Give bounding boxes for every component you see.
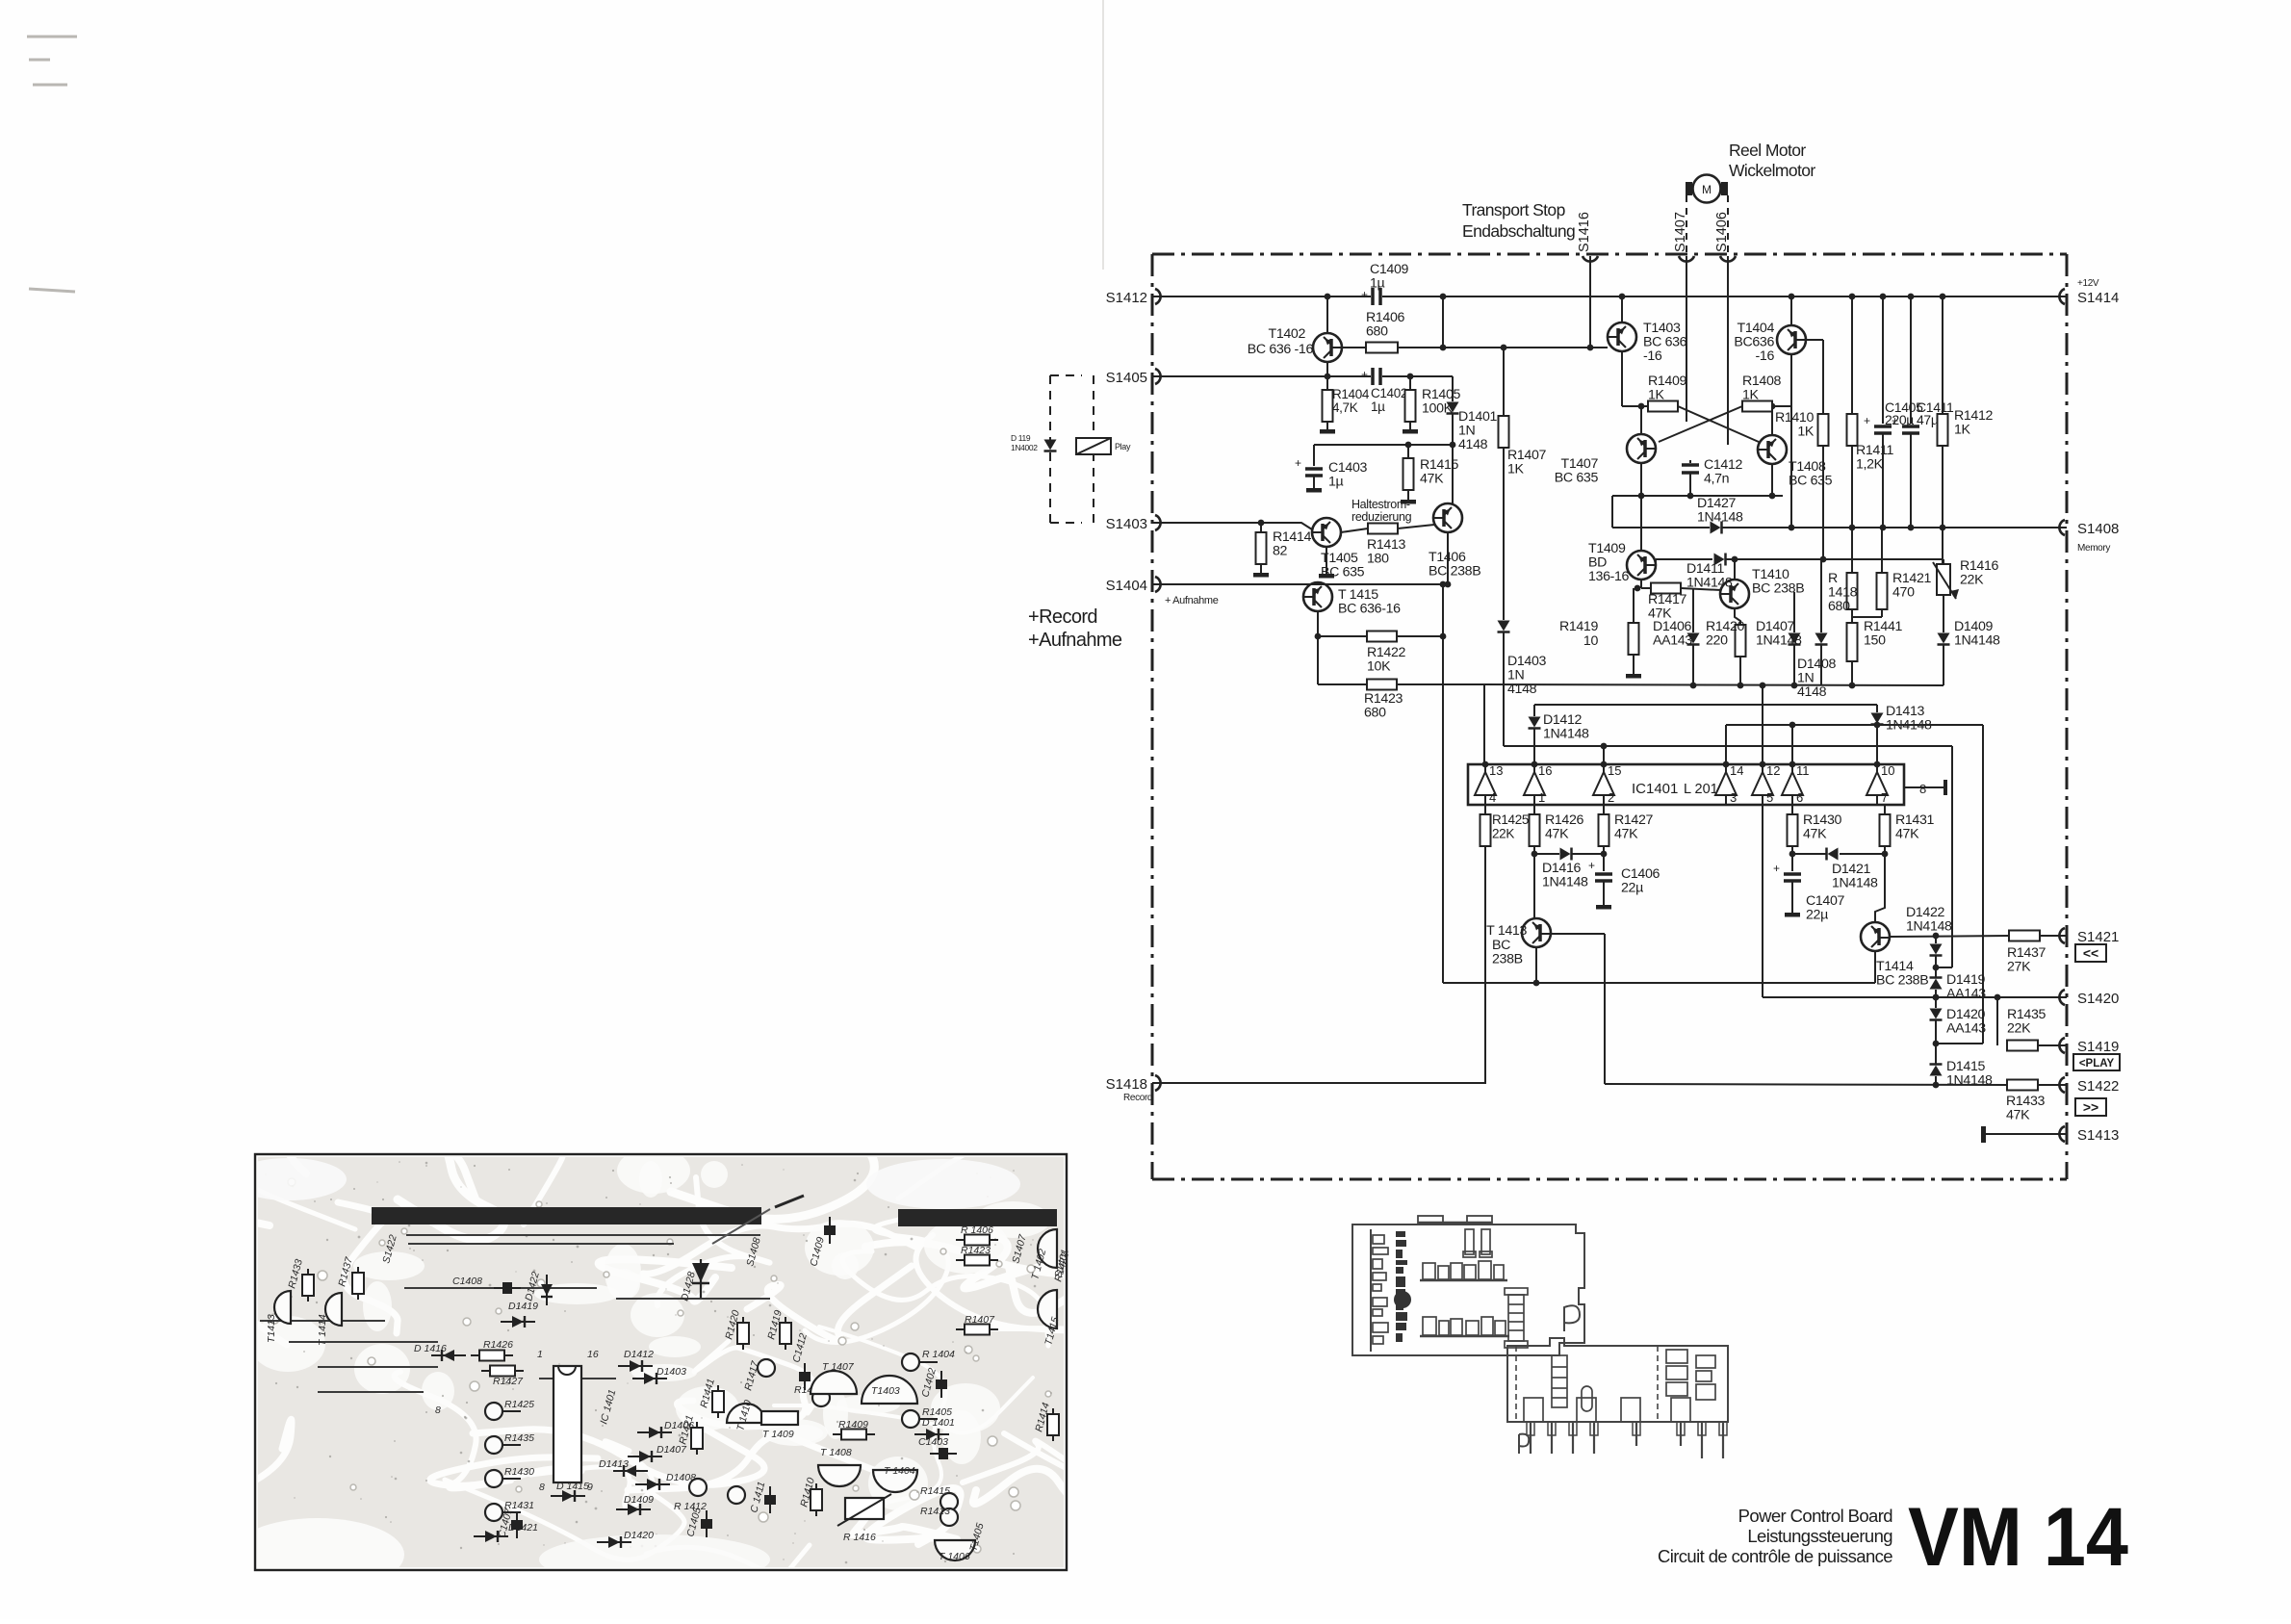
junction [1933, 1082, 1940, 1089]
pcb diode D1416 [431, 1354, 466, 1356]
pcb transistor T1410 [727, 1404, 765, 1423]
PCB trace lines [260, 1235, 770, 1392]
svg-text:1N4148: 1N4148 [1697, 510, 1743, 526]
svg-text:R 1406: R 1406 [961, 1224, 993, 1236]
svg-text:4148: 4148 [1797, 684, 1827, 700]
wire D1416 left [1534, 853, 1559, 855]
wire R1416 to D1409 [1943, 595, 1944, 632]
svg-text:D1420: D1420 [624, 1530, 654, 1541]
ground [1326, 568, 1327, 574]
svg-text:T1403: T1403 [871, 1385, 900, 1397]
pcb capacitor C1405 [706, 1510, 708, 1537]
svg-text:+12V: +12V [2077, 278, 2099, 289]
page artifact marks [27, 37, 77, 292]
wire [1641, 587, 1651, 589]
wire R1423 right [1397, 683, 1484, 685]
wire D1409 down [1943, 645, 1944, 685]
svg-text:1N4148: 1N4148 [1542, 875, 1588, 890]
pcb diode D1428 [700, 1259, 702, 1298]
ground [1313, 482, 1315, 488]
wire S1413 stub [1986, 1133, 2067, 1135]
transistor T1407 [1627, 434, 1656, 463]
wire D1401 to T1406 [1452, 414, 1454, 503]
svg-text:47K: 47K [1895, 827, 1919, 842]
pcb ring R1408 [812, 1389, 830, 1406]
wire [1876, 705, 1878, 712]
pcb resistor R1409 [833, 1433, 875, 1435]
svg-text:S1405: S1405 [1106, 370, 1147, 386]
pcb ring R1415 [940, 1493, 958, 1510]
PCB bus bar left [372, 1207, 761, 1224]
wire S1420 line [1763, 996, 2067, 998]
junction [1532, 851, 1538, 858]
svg-text:220µ: 220µ [1885, 412, 1914, 427]
wire C1407 down [1791, 881, 1793, 911]
wire T1407 emitter [1640, 463, 1642, 496]
pcb capacitor C1402 [940, 1371, 942, 1398]
wire T1404 node to memory line [1790, 406, 1792, 528]
wire long vertical from S1404 [1442, 584, 1444, 983]
svg-text:T1402: T1402 [1269, 326, 1306, 342]
wire R1423 left [1318, 683, 1367, 685]
wire R1433 to S1422 [2038, 1084, 2067, 1086]
schematic border frame [1152, 253, 2067, 256]
svg-text:R1413: R1413 [920, 1506, 950, 1517]
svg-text:<<: << [2083, 945, 2098, 961]
svg-text:10: 10 [1583, 633, 1599, 649]
svg-text:47K: 47K [1803, 827, 1827, 842]
pcb transistor T1402 [1038, 1229, 1057, 1268]
wire [1260, 523, 1262, 532]
junction [1635, 585, 1641, 592]
junction [1769, 493, 1776, 500]
diode D119 [1044, 440, 1057, 451]
svg-text:AA143: AA143 [1946, 1021, 1986, 1037]
diode D1420 [1930, 1009, 1943, 1019]
svg-text:1K: 1K [1648, 388, 1665, 403]
wire D1411 left [1656, 558, 1712, 560]
svg-text:220: 220 [1706, 633, 1728, 649]
junction [1325, 294, 1331, 300]
svg-text:150: 150 [1864, 633, 1886, 649]
pcb transistor T1404 [873, 1470, 917, 1492]
diode D1407 [1789, 633, 1801, 644]
ground [1791, 907, 1793, 913]
svg-text:680: 680 [1364, 706, 1386, 721]
svg-text:S1407: S1407 [1673, 212, 1688, 252]
junction [1482, 761, 1489, 768]
wire D1403 down [1503, 632, 1505, 746]
wire pin1 to R1426 [1533, 805, 1535, 814]
svg-text:T 1414: T 1414 [317, 1314, 328, 1346]
pcb ring R1425 [485, 1403, 502, 1420]
pin 8 stub [1904, 786, 1944, 788]
svg-text:Haltestrom-: Haltestrom- [1351, 498, 1410, 511]
junction [1933, 994, 1940, 1001]
svg-text:680: 680 [1366, 324, 1388, 340]
wire R1406 to T1403 base [1398, 347, 1608, 348]
connector S1416 [1583, 256, 1598, 262]
svg-text:1,2K: 1,2K [1856, 457, 1884, 473]
junction [1760, 683, 1766, 689]
svg-text:L 201: L 201 [1684, 782, 1718, 797]
buffer triangle pin 16/1 [1524, 772, 1545, 795]
wire D1416 right [1572, 853, 1604, 855]
capacitor C1407 [1784, 872, 1801, 876]
wire T1402 emitter [1326, 362, 1328, 376]
wire [1313, 476, 1315, 486]
wire C1411 down [1910, 433, 1912, 528]
junction [1407, 374, 1414, 380]
wire T1405 to R1413 [1341, 528, 1368, 532]
wire R1410 down [1822, 446, 1824, 559]
pcb diode D1420 [597, 1541, 631, 1543]
svg-text:T 1413: T 1413 [1486, 923, 1527, 939]
junction [1789, 525, 1795, 531]
wire [1935, 1076, 1937, 1085]
resistor R1406 [1366, 343, 1398, 353]
wire memory to R1418 [1851, 528, 1853, 573]
junction [1601, 743, 1608, 750]
diode D1416 [1560, 848, 1571, 861]
capacitor C1405 [1874, 425, 1892, 428]
wire R1422 right [1397, 635, 1443, 637]
resistor R1404 [1323, 390, 1333, 422]
pcb capacitor C1408 [494, 1287, 521, 1289]
junction [1533, 980, 1540, 987]
connector S1418 [1155, 1075, 1161, 1091]
relay K Play coil [1076, 438, 1111, 454]
pcb ring R1417 [758, 1359, 775, 1377]
wire S1416 tail [1589, 343, 1591, 348]
svg-text:T 1408: T 1408 [820, 1447, 852, 1458]
svg-text:D1403: D1403 [656, 1366, 686, 1378]
board2 right stack [1666, 1350, 1715, 1400]
svg-text:1N4148: 1N4148 [1543, 727, 1589, 742]
svg-text:C1408: C1408 [452, 1276, 482, 1287]
ground [1409, 424, 1411, 429]
wire cross coupling 1 [1678, 406, 1759, 442]
svg-text:1K: 1K [1742, 388, 1760, 403]
wire [1935, 956, 1937, 978]
transistor T1415 [1303, 582, 1332, 611]
ground [1633, 668, 1635, 674]
diode D1419 [1930, 979, 1943, 990]
wire pin2 to R1427 [1603, 805, 1605, 814]
diode D1409 [1938, 633, 1950, 644]
pcb ring R1405 [902, 1410, 919, 1428]
wire R1407 to D1403 [1503, 448, 1505, 620]
pcb diode D1413 [613, 1470, 648, 1472]
svg-text:6: 6 [1796, 790, 1803, 805]
buffer triangle pin 13/4 [1475, 772, 1496, 795]
board2 oval slot [1582, 1386, 1592, 1411]
svg-text:S1418: S1418 [1106, 1076, 1147, 1093]
pcb transistor T1408 [818, 1465, 861, 1486]
svg-text:D 1415: D 1415 [556, 1481, 589, 1492]
junction [1501, 345, 1507, 351]
svg-text:BC 636-16: BC 636-16 [1338, 602, 1401, 617]
svg-text:R1430: R1430 [504, 1466, 534, 1478]
wire [1326, 422, 1328, 427]
wire rail to C1405 [1882, 296, 1884, 424]
junction [1738, 683, 1744, 689]
junction [1619, 294, 1626, 300]
svg-text:T 1409: T 1409 [762, 1429, 794, 1440]
pcb capacitor C1403 [930, 1453, 957, 1455]
resistor R1405 [1405, 390, 1416, 422]
wire S1422 line [1605, 1084, 2007, 1085]
svg-text:Memory: Memory [2077, 543, 2110, 554]
svg-text:1µ: 1µ [1328, 475, 1344, 490]
svg-text:4,7n: 4,7n [1704, 472, 1729, 487]
pcb ring R1412 [689, 1479, 707, 1496]
wire rail to R1412 [1942, 296, 1943, 414]
wire T1414 emitter to R1437 [1891, 936, 2009, 937]
pcb capacitor C1412 [804, 1363, 806, 1390]
resistor R1409 [1648, 401, 1678, 412]
pcb transistor T1413 [274, 1291, 291, 1324]
resistor R1410 [1818, 414, 1829, 446]
junction [1601, 761, 1608, 768]
wire pin5 down [1762, 805, 1763, 997]
junction [1440, 345, 1447, 351]
wire [1935, 936, 1937, 943]
wire to R1409 [1622, 405, 1648, 407]
wire D1412 to pin16 [1533, 729, 1535, 764]
connector S1419 [2059, 1038, 2065, 1053]
transistor T1404 [1777, 325, 1806, 354]
wire [1313, 445, 1315, 466]
svg-text:AA143: AA143 [1946, 987, 1986, 1002]
wire line C [1726, 724, 1983, 726]
junction [1908, 294, 1915, 300]
svg-text:680: 680 [1828, 599, 1850, 614]
svg-text:+: + [1773, 862, 1780, 875]
pcb T1409 rect [761, 1411, 798, 1425]
pcb transistor T1415 [1038, 1290, 1057, 1328]
transistor T1414 [1861, 922, 1890, 951]
svg-text:BC 635: BC 635 [1789, 474, 1833, 489]
wire R1418 R1421 join [1852, 616, 1882, 618]
wire cross coupling 2 [1659, 406, 1742, 442]
wire [1936, 1043, 1983, 1044]
svg-text:<PLAY: <PLAY [2079, 1058, 2115, 1070]
pcb diode D1401 [914, 1433, 949, 1435]
svg-text:22K: 22K [1492, 827, 1514, 841]
connector S1421 [2059, 928, 2065, 943]
transistor T1408 [1758, 435, 1787, 464]
svg-text:10K: 10K [1367, 659, 1391, 675]
pcb resistor R1420 [742, 1317, 744, 1350]
svg-text:D 1401: D 1401 [922, 1417, 955, 1429]
motor M reel motor [1693, 175, 1721, 203]
wire R1413 to T1406 [1398, 525, 1434, 528]
svg-text:D1409: D1409 [624, 1494, 654, 1506]
pcb ring R1413 [940, 1508, 958, 1526]
wire to R1435 [1996, 997, 1998, 1045]
svg-text:1N4148: 1N4148 [1832, 876, 1878, 891]
diode D1403 [1498, 621, 1510, 632]
resistor R1414 [1256, 532, 1267, 564]
wire T1415 emitter down [1317, 611, 1319, 684]
junction [1940, 294, 1946, 300]
svg-text:R 1416: R 1416 [843, 1532, 876, 1543]
junction [1849, 294, 1856, 300]
capacitor C1406 [1595, 872, 1612, 876]
diode D1401 [1447, 402, 1459, 413]
pcb resistor R1437 [357, 1267, 359, 1300]
wire memory line to S1408 [1722, 527, 2067, 528]
wire R1417 to T1410 [1681, 588, 1721, 590]
junction [1940, 525, 1946, 531]
pcb resistor R1419 [785, 1317, 786, 1350]
transistor T1405 [1312, 518, 1341, 547]
pcb ring R1404 [902, 1353, 919, 1371]
wire T1402 base to R1406 [1342, 347, 1366, 348]
wire T1413 collector down [1535, 948, 1537, 983]
PCB bus bar right [898, 1209, 1057, 1226]
pcb ring R1430 [485, 1470, 502, 1487]
node box fast-rewind << [2075, 944, 2106, 962]
wire R1411 down [1851, 446, 1853, 528]
svg-text:S1413: S1413 [2077, 1127, 2119, 1144]
svg-text:Leistungssteuerung: Leistungssteuerung [1747, 1526, 1892, 1546]
wire R1427 down [1603, 846, 1605, 871]
wire emitter bus [1612, 495, 1783, 497]
diode D1408 [1815, 633, 1828, 644]
wire to pin11 [1791, 725, 1793, 764]
junction [1789, 722, 1796, 729]
wire pin6 to R1430 [1791, 805, 1793, 814]
wire memory line left [1612, 527, 1710, 528]
wire R1437 to S1421 [2040, 935, 2067, 937]
wire D1421 left [1792, 853, 1826, 855]
svg-text:2: 2 [1608, 790, 1614, 805]
junction [1908, 525, 1915, 531]
resistor R1426 [1530, 814, 1540, 846]
junction [1440, 633, 1447, 640]
wire S1406 down2 [1727, 296, 1729, 445]
board2 tall stack [1552, 1355, 1567, 1407]
wire rail to C1411 [1910, 296, 1912, 424]
svg-text:16: 16 [1538, 763, 1552, 778]
wire [1936, 967, 1952, 968]
svg-text:R1423: R1423 [961, 1245, 991, 1256]
wire R1422 left [1318, 635, 1367, 637]
wire to R1410 [1822, 340, 1824, 414]
svg-text:Wickelmotor: Wickelmotor [1729, 161, 1815, 180]
svg-text:R1435: R1435 [504, 1432, 534, 1444]
svg-text:4148: 4148 [1458, 437, 1488, 452]
pcb pot R1416 [845, 1498, 884, 1519]
wire R1441 down [1851, 661, 1853, 685]
connector S1414 [2059, 289, 2065, 304]
wire S1405 line right [1382, 375, 1453, 377]
svg-text:S1421: S1421 [2077, 929, 2119, 945]
board location diagram upper outline [1352, 1224, 1584, 1355]
ground [1407, 494, 1409, 500]
svg-text:1K: 1K [1954, 423, 1971, 438]
wire D1411 right [1726, 558, 1943, 560]
pcb resistor R1421 [696, 1422, 698, 1455]
svg-text:22K: 22K [1960, 573, 1984, 588]
board1 dark strip [1394, 1231, 1411, 1342]
svg-text:1: 1 [1538, 790, 1545, 805]
resistor R1419 [1629, 623, 1639, 655]
svg-text:11: 11 [1796, 763, 1810, 778]
pcb diode D1422 [546, 1275, 548, 1305]
wire memory to R1421 [1881, 528, 1883, 573]
svg-text:238B: 238B [1492, 952, 1523, 967]
wire C1403 R1415 top [1314, 444, 1453, 446]
junction [1445, 581, 1452, 588]
resistor R1427 [1599, 814, 1609, 846]
connector S1404 [1155, 577, 1161, 592]
wire T1404 collector up [1790, 296, 1792, 325]
board location diagram lower outline [1507, 1338, 1728, 1422]
svg-text:1µ: 1µ [1370, 276, 1385, 292]
wire pin4 to R1425 [1484, 805, 1486, 814]
svg-text:R1415: R1415 [920, 1485, 950, 1497]
junction [1789, 761, 1796, 768]
svg-text:S1416: S1416 [1577, 212, 1592, 252]
svg-text:C1403: C1403 [918, 1436, 948, 1448]
wire D1421 right [1840, 853, 1885, 855]
pcb capacitor C1409 [829, 1217, 831, 1244]
pcb ring R1431 [485, 1504, 502, 1521]
svg-text:47K: 47K [1420, 472, 1444, 487]
svg-text:10: 10 [1881, 763, 1894, 778]
connector S1413 [2059, 1126, 2065, 1142]
wire to D1406 [1692, 588, 1694, 632]
diode D1412 [1529, 717, 1541, 728]
svg-text:T1413: T1413 [266, 1314, 277, 1343]
board1 tall caps [1463, 1229, 1492, 1257]
svg-text:Endabschaltung: Endabschaltung [1462, 221, 1575, 241]
svg-text:>>: >> [2083, 1099, 2098, 1115]
junction [1789, 294, 1795, 300]
junction [1450, 442, 1456, 449]
wire R1420 down [1739, 657, 1741, 685]
wire [1407, 490, 1409, 498]
wire T1404 down [1790, 354, 1792, 406]
wire [1689, 460, 1691, 463]
capacitor C1402 [1371, 368, 1375, 385]
svg-text:R1407: R1407 [965, 1314, 995, 1326]
wire pin15 line [1504, 745, 1952, 747]
pcb resistor R1410 [815, 1483, 817, 1516]
wire [1326, 547, 1327, 572]
svg-text:S1403: S1403 [1106, 516, 1147, 532]
wire D1406 down [1692, 645, 1694, 685]
svg-text:+: + [1361, 288, 1368, 301]
wire to D1407 [1793, 592, 1795, 632]
buffer triangle pin 12/5 [1752, 772, 1773, 795]
transistor T1410 [1720, 580, 1749, 608]
svg-text:1N4002: 1N4002 [1011, 443, 1038, 452]
pcb diode D1406 [637, 1431, 672, 1433]
resistor R1412 [1938, 414, 1948, 446]
svg-text:D1419: D1419 [508, 1301, 538, 1312]
wire to pin15 [1603, 746, 1605, 764]
wire T1413 emitter right [1552, 933, 1605, 935]
IC U IC1401 box [1468, 764, 1904, 805]
ground [1603, 899, 1605, 905]
wire D1407 down [1793, 645, 1795, 685]
pcb diode D1412 [618, 1365, 653, 1367]
svg-text:T 1407: T 1407 [822, 1361, 855, 1373]
